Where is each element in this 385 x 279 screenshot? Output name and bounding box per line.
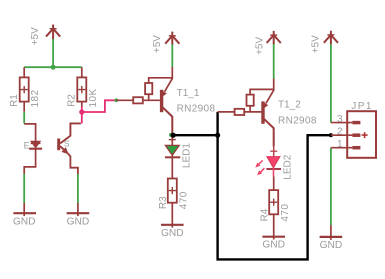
- svg-text:R1: R1: [9, 94, 20, 107]
- resistor R1: [20, 77, 29, 111]
- junction black net A: [171, 133, 176, 138]
- ground GND3: [161, 225, 184, 239]
- power +5V symbol P4: [324, 31, 338, 45]
- svg-text:JP1: JP1: [351, 101, 373, 112]
- junction +5V net: [51, 65, 56, 70]
- svg-text:T1_1: T1_1: [177, 88, 200, 99]
- LED LED2: [255, 147, 293, 190]
- svg-text:R4: R4: [259, 208, 270, 221]
- pin 2: [331, 134, 353, 136]
- ground GND5: [320, 237, 343, 251]
- svg-text:2: 2: [337, 127, 343, 138]
- svg-text:LED2: LED2: [282, 154, 293, 179]
- transistor T1_2 RN2908: [218, 79, 317, 147]
- ground GND1: [13, 213, 36, 227]
- svg-text:1: 1: [337, 139, 343, 150]
- power +5V symbol P2: [165, 32, 179, 45]
- svg-text:RN2908: RN2908: [177, 104, 216, 115]
- svg-text:GND: GND: [320, 240, 343, 251]
- svg-text:GND: GND: [67, 216, 90, 227]
- wire collector net (black): [172, 112, 331, 260]
- svg-text:RN2908: RN2908: [278, 115, 317, 126]
- svg-text:GND: GND: [13, 216, 36, 227]
- svg-text:+5V: +5V: [30, 27, 41, 45]
- LED LED1: [165, 133, 193, 179]
- origin cross JP1: [362, 132, 368, 138]
- phototransistor S: [57, 123, 81, 174]
- svg-text:3: 3: [337, 114, 343, 125]
- resistor R3: [168, 179, 177, 228]
- svg-text:R3: R3: [158, 196, 169, 209]
- junction pink net: [79, 109, 84, 114]
- junction black net at JP1 pin2: [329, 133, 333, 137]
- resistor R4: [269, 190, 278, 239]
- wire R1 top lead: [23, 67, 25, 77]
- svg-text:470: 470: [280, 204, 291, 222]
- ground GND4: [262, 237, 285, 251]
- pin 1: [331, 147, 353, 149]
- svg-text:+5V: +5V: [255, 36, 266, 54]
- wire +5V to T1_1 emitter: [171, 44, 173, 67]
- svg-text:R2: R2: [66, 94, 77, 107]
- wire diode E to GND: [24, 147, 35, 174]
- wire R1 to diode E (green net): [23, 112, 25, 124]
- power +5V symbol P3: [267, 31, 281, 44]
- svg-text:T1_2: T1_2: [278, 99, 301, 110]
- power +5V symbol P1: [46, 25, 60, 40]
- diode E: [24, 140, 42, 150]
- svg-text:+5V: +5V: [310, 35, 321, 53]
- wire S to GND: [77, 174, 79, 203]
- svg-text:10K: 10K: [88, 88, 99, 107]
- resistor R2: [77, 77, 86, 106]
- svg-text:GND: GND: [161, 228, 184, 239]
- wire +5V net to R1/R2: [24, 39, 82, 67]
- connector JP1: [331, 101, 376, 158]
- svg-text:470: 470: [179, 191, 190, 209]
- junction black net B: [215, 133, 220, 138]
- wire R2 to base net (pink): [82, 100, 117, 123]
- svg-text:182: 182: [30, 89, 41, 107]
- wire jog to diode E: [24, 124, 35, 142]
- svg-text:GND: GND: [262, 240, 285, 251]
- wire +5V to T1_2 emitter: [273, 44, 275, 79]
- ground GND2: [67, 213, 90, 227]
- wire JP1 pin1 to GND: [330, 148, 332, 226]
- svg-text:+5V: +5V: [152, 35, 163, 53]
- wire +5V to JP1 pin3: [330, 44, 332, 122]
- svg-text:E: E: [24, 140, 30, 150]
- wire R2 top lead: [81, 67, 83, 77]
- pin 3: [331, 122, 353, 124]
- svg-text:LED1: LED1: [182, 143, 193, 168]
- transistor T1_1 RN2908: [114, 67, 215, 135]
- svg-text:S: S: [64, 138, 70, 148]
